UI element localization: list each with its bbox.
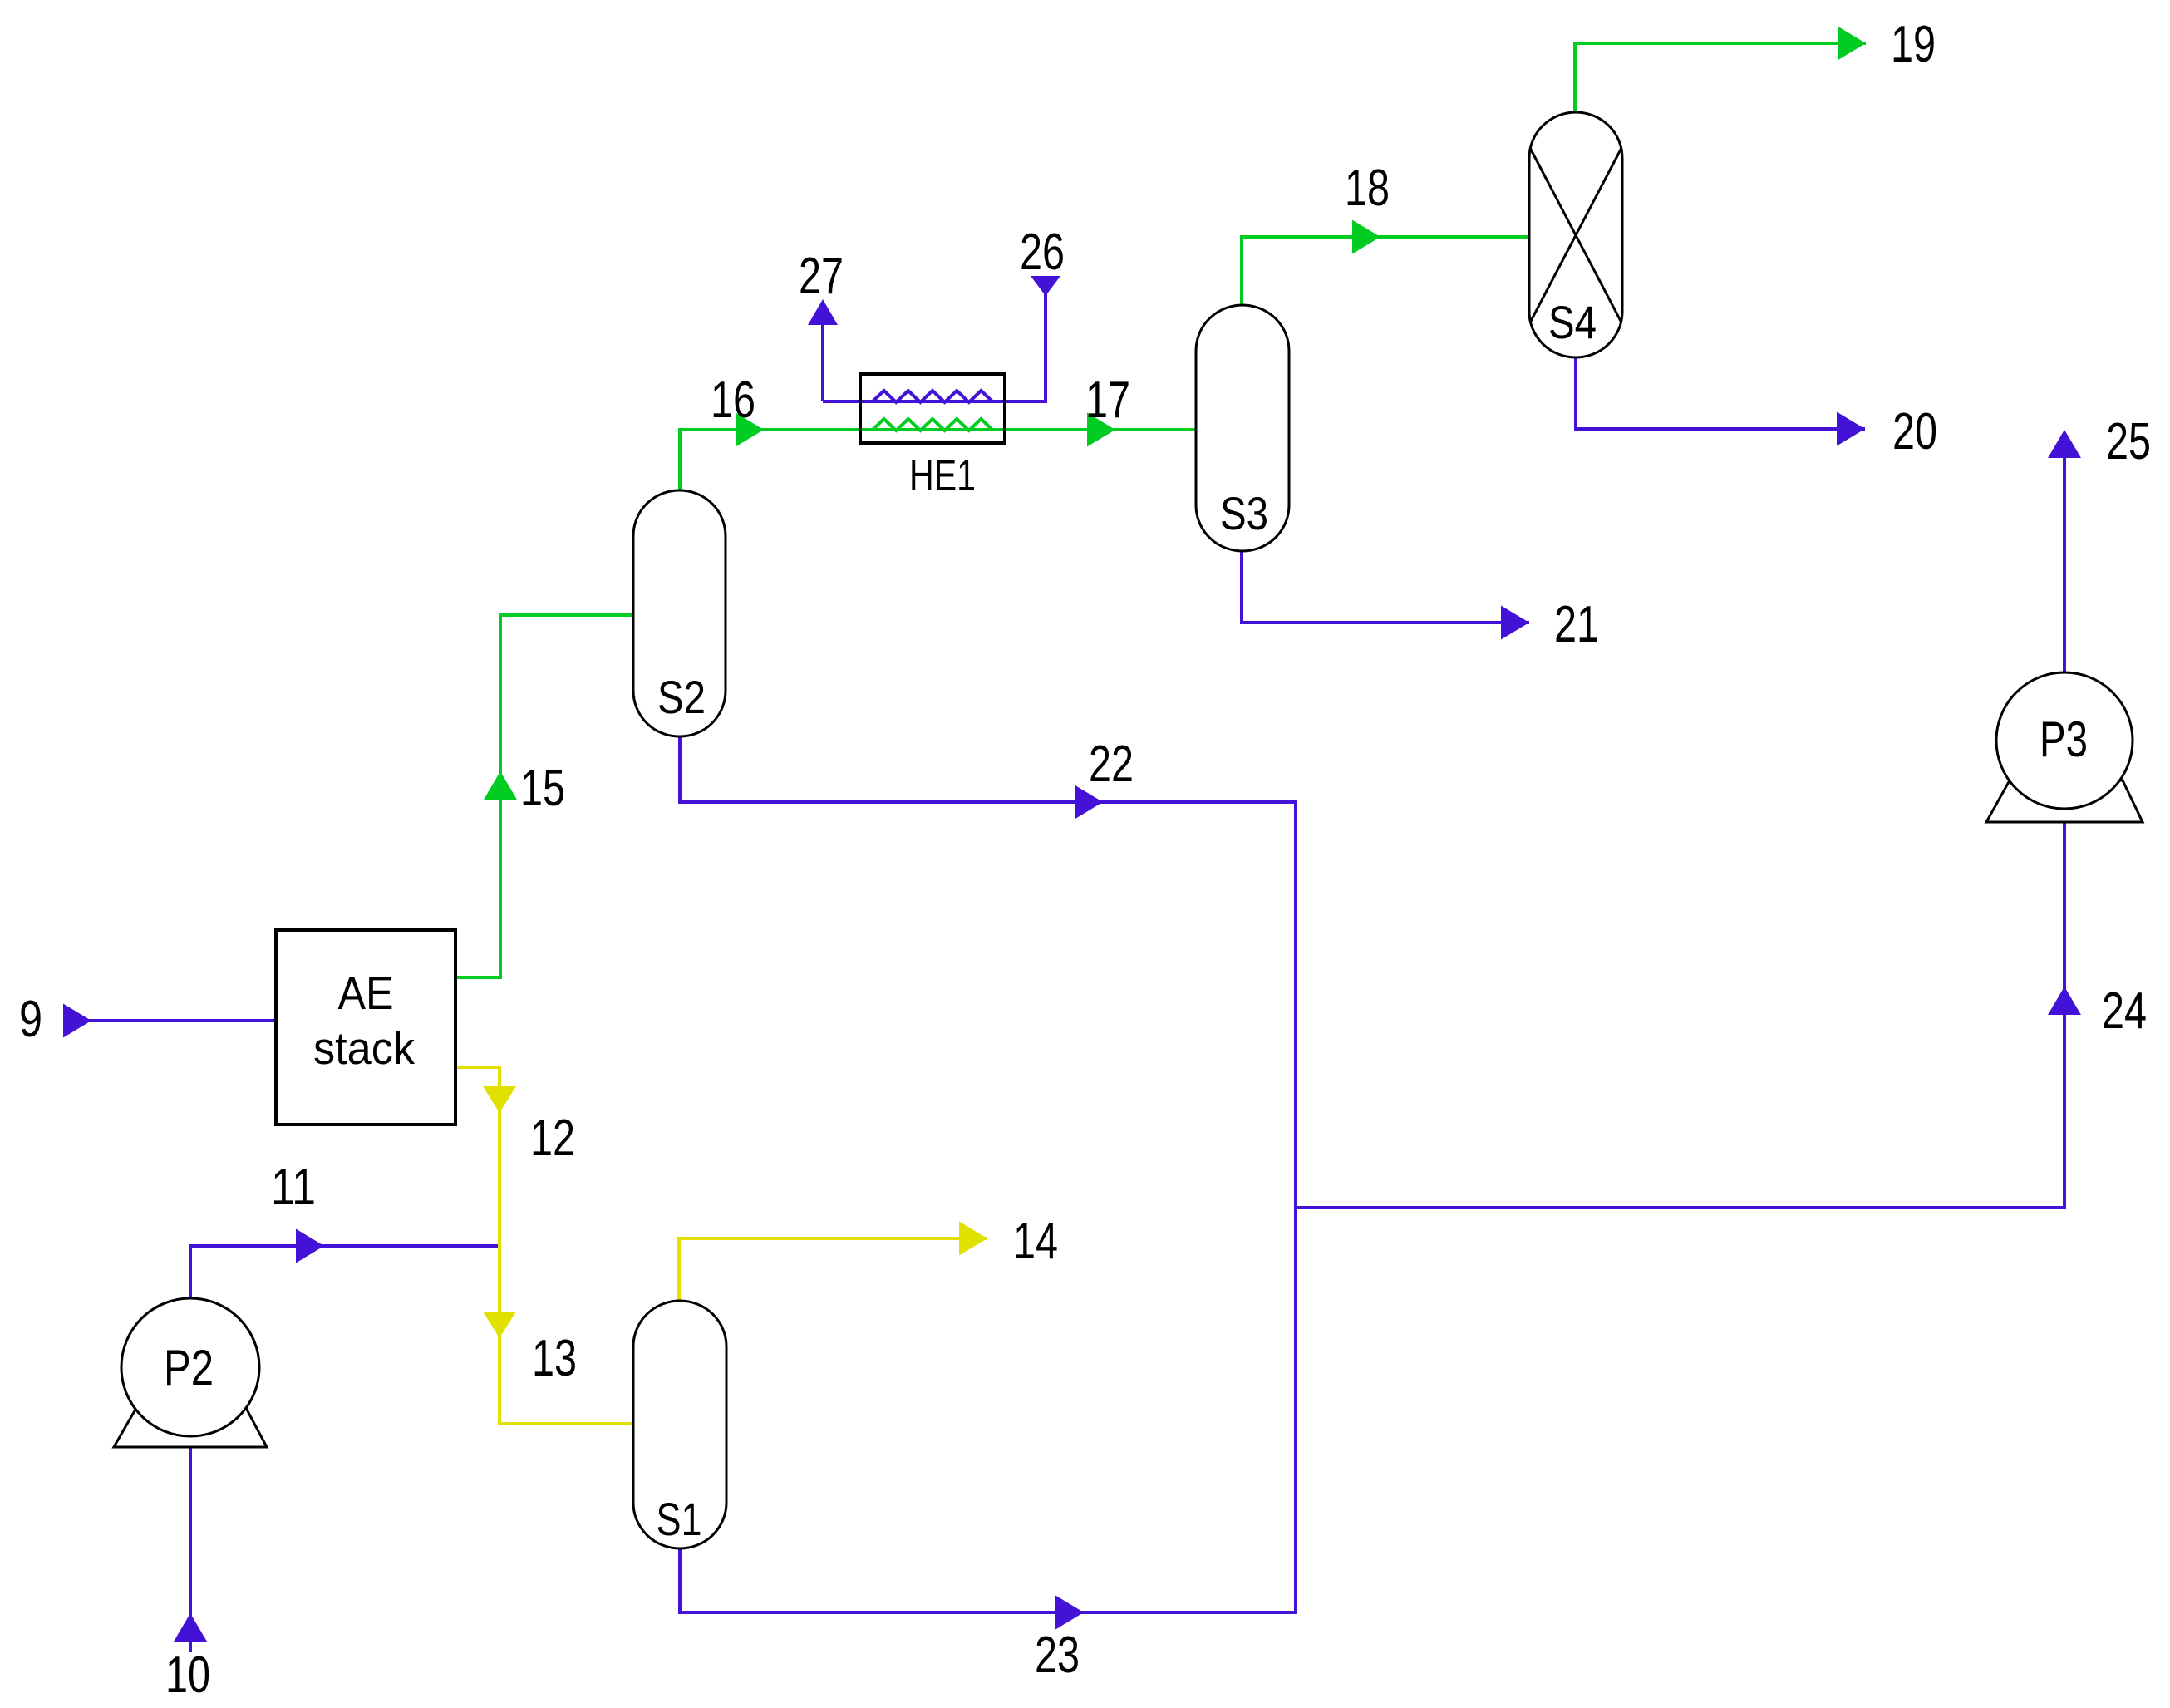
- wire blue trunk (22/23 collector): [1294, 800, 1297, 1614]
- svg-text:17: 17: [1085, 372, 1130, 429]
- svg-text:22: 22: [1089, 736, 1134, 793]
- svg-text:21: 21: [1554, 596, 1599, 653]
- svg-text:P3: P3: [2040, 711, 2088, 767]
- wire stream 22 (blue S2 bottom to trunk): [680, 736, 1296, 802]
- arrow stream 22: [1075, 785, 1103, 820]
- svg-text:15: 15: [520, 760, 565, 817]
- svg-text:10: 10: [165, 1646, 210, 1704]
- arrow stream 24: [2048, 987, 2081, 1015]
- arrow stream 20: [1837, 412, 1865, 446]
- wire stream 21 (blue S3 bottom outlet): [1242, 550, 1529, 623]
- svg-text:14: 14: [1013, 1213, 1058, 1270]
- wire stream 9 (blue inlet to AE stack): [65, 1019, 276, 1022]
- svg-text:18: 18: [1345, 160, 1390, 217]
- wire stream 25 (blue P3 outlet): [2063, 456, 2066, 673]
- svg-text:AE: AE: [338, 967, 394, 1020]
- wire stream 23 (blue S1 bottom to trunk): [680, 1547, 1297, 1612]
- wire stream 20 (blue S4 bottom outlet): [1576, 357, 1865, 429]
- svg-text:9: 9: [19, 991, 42, 1048]
- svg-text:20: 20: [1892, 403, 1937, 460]
- vessel S3: [1196, 305, 1289, 551]
- wire stream 11 (P2 outlet to mix junction): [190, 1246, 499, 1299]
- svg-text:stack: stack: [313, 1022, 415, 1074]
- wire stream 24 (blue trunk branch to P3): [1296, 823, 2064, 1208]
- wire stream 26 (blue coolant inlet to HE1): [1005, 291, 1046, 401]
- pump P3: [1986, 672, 2143, 822]
- wire stream 14 (yellow S1 top outlet): [679, 1238, 987, 1302]
- arrow stream 25: [2048, 430, 2081, 458]
- electrolyser AE stack box: [276, 930, 455, 1125]
- svg-text:27: 27: [799, 248, 844, 305]
- arrow stream 15: [484, 771, 517, 800]
- svg-text:S2: S2: [657, 671, 706, 723]
- arrow stream 16: [736, 413, 764, 447]
- vessel S1: [633, 1301, 726, 1548]
- wire stream 10 (blue inlet to pump P2): [189, 1447, 192, 1652]
- arrow stream 17: [1087, 413, 1115, 447]
- wire stream 15 (green AE stack to S2): [455, 615, 633, 977]
- arrow stream 21: [1501, 606, 1529, 640]
- svg-text:S3: S3: [1220, 487, 1268, 539]
- svg-text:19: 19: [1891, 16, 1936, 73]
- svg-text:11: 11: [271, 1159, 316, 1216]
- svg-text:16: 16: [711, 372, 755, 429]
- wire blue coolant through-line in HE1: [823, 400, 1046, 403]
- arrow stream 27: [808, 299, 838, 325]
- svg-text:25: 25: [2106, 413, 2151, 470]
- svg-text:12: 12: [530, 1110, 575, 1167]
- arrow stream 11: [296, 1229, 324, 1263]
- wire stream 27 (blue coolant outlet of HE1): [821, 323, 824, 401]
- coil green (HE1 hot side): [872, 419, 993, 431]
- svg-text:24: 24: [2102, 982, 2147, 1040]
- arrow stream 13: [483, 1312, 516, 1338]
- arrow stream 14: [959, 1222, 987, 1256]
- svg-text:23: 23: [1035, 1627, 1080, 1684]
- svg-text:13: 13: [532, 1330, 577, 1387]
- arrow stream 18: [1352, 220, 1380, 254]
- arrow stream 26: [1031, 276, 1060, 296]
- svg-text:HE1: HE1: [909, 451, 976, 500]
- vessel S4 (packed column with X): [1529, 112, 1622, 357]
- arrow stream 23: [1055, 1596, 1084, 1630]
- heat exchanger HE1 box: [860, 374, 1005, 443]
- wire stream 19 (green S4 top outlet): [1575, 43, 1866, 113]
- wire stream 16/17 (green S2 top through HE1 to S3): [680, 430, 1196, 491]
- svg-text:S1: S1: [657, 1493, 702, 1545]
- wire stream 18 (green S3 top to S4): [1242, 237, 1530, 306]
- arrow stream 12: [483, 1086, 516, 1113]
- svg-text:P2: P2: [164, 1340, 214, 1395]
- wire stream 12/13 (yellow from AE stack down to S1): [455, 1067, 633, 1424]
- svg-text:S4: S4: [1548, 296, 1597, 348]
- arrow stream 9: [63, 1004, 91, 1038]
- coil blue (HE1 cold side): [872, 391, 993, 402]
- arrow stream 19: [1838, 27, 1866, 61]
- svg-text:26: 26: [1020, 224, 1065, 281]
- vessel S2: [633, 490, 726, 736]
- pump P2: [114, 1298, 267, 1447]
- label AE stack: [313, 967, 415, 1074]
- arrow stream 10: [174, 1613, 207, 1642]
